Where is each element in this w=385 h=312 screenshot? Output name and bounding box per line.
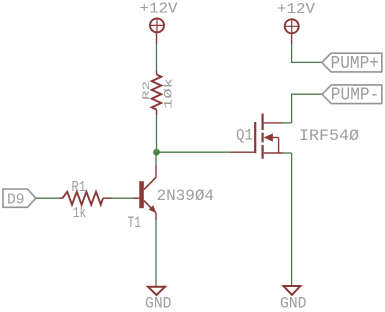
power +12V P2 (top right) bbox=[285, 19, 299, 44]
ground GND (left) bbox=[148, 287, 165, 295]
svg-text:IRF54Ø: IRF54Ø bbox=[299, 127, 359, 145]
ground GND (right) bbox=[283, 286, 300, 295]
resistor R1 bbox=[59, 192, 103, 205]
wire D9 to R1 bbox=[36, 197, 59, 199]
svg-text:GND: GND bbox=[145, 295, 172, 312]
svg-text:R2: R2 bbox=[142, 81, 153, 100]
svg-text:Q1: Q1 bbox=[236, 127, 253, 145]
wire junction down to T1 collector bbox=[155, 152, 157, 165]
flag PUMP+ bbox=[322, 53, 382, 74]
power +12V P1 (top left) bbox=[150, 18, 164, 44]
svg-text:D9: D9 bbox=[7, 192, 25, 209]
svg-text:+12V: +12V bbox=[140, 1, 178, 18]
svg-text:1k: 1k bbox=[73, 205, 86, 222]
svg-text:PUMP+: PUMP+ bbox=[331, 54, 380, 74]
wire PUMP- flag to Q1 drain bbox=[292, 94, 322, 123]
wire R1 to T1 base bbox=[111, 197, 133, 199]
wire Q1 source stub to source rail bbox=[283, 152, 292, 154]
wire Q1 source to GND bbox=[291, 153, 293, 286]
node junction (collector/R2/gate) bbox=[153, 149, 160, 156]
svg-text:T1: T1 bbox=[128, 214, 142, 232]
svg-text:2N39Ø4: 2N39Ø4 bbox=[157, 187, 215, 205]
svg-text:+12V: +12V bbox=[277, 1, 315, 18]
wire junction to Q1 gate bbox=[157, 151, 231, 153]
mosfet Q1 IRF540 bbox=[255, 114, 283, 159]
wire +12V pin to R2 top bbox=[156, 44, 158, 71]
wire +12V to PUMP+ flag bbox=[292, 44, 322, 62]
flag D9 bbox=[3, 189, 36, 209]
wire R2 bottom to junction bbox=[156, 115, 158, 152]
wire Q1 drain stub to drain rail bbox=[283, 122, 292, 124]
wire T1 emitter to GND bbox=[155, 220, 157, 287]
svg-text:1Øk: 1Øk bbox=[164, 77, 176, 109]
wire gate pin of Q1 bbox=[230, 151, 255, 153]
flag PUMP- bbox=[322, 85, 382, 106]
svg-text:R1: R1 bbox=[72, 179, 87, 196]
svg-text:PUMP-: PUMP- bbox=[331, 86, 380, 106]
transistor T1 2N3904 bbox=[103, 165, 156, 220]
resistor R2 bbox=[152, 71, 162, 116]
svg-text:GND: GND bbox=[280, 295, 307, 312]
